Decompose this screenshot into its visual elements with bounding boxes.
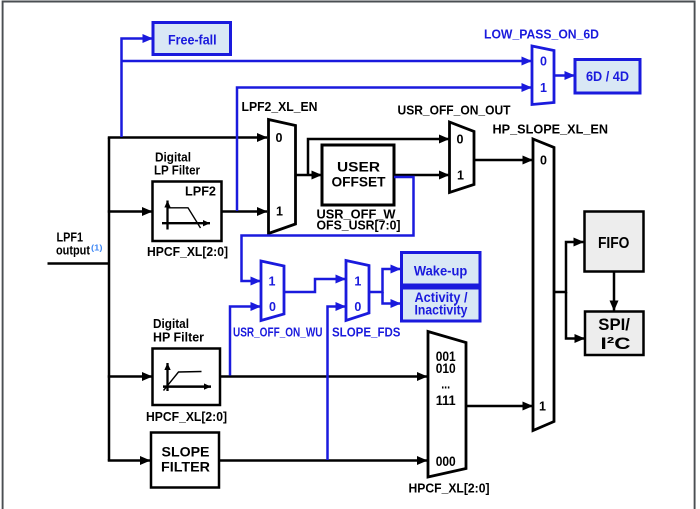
- svg-text:OFFSET: OFFSET: [332, 175, 387, 190]
- wire 6D mux output: [554, 74, 575, 77]
- wire SLOPE_FDS input 0 from slope output: [328, 307, 346, 461]
- label USR_OFF_W OFS_USR[7:0]: [317, 208, 401, 233]
- wire branch to USR_OFF_ON_OUT input 0: [308, 139, 449, 176]
- svg-text:010: 010: [436, 361, 456, 376]
- svg-text:1: 1: [354, 275, 361, 289]
- wire HP_SLOPE output split to FIFO and SPI: [554, 242, 585, 339]
- label USR_OFF_ON_OUT: [398, 104, 511, 118]
- wire HPCF mux output to HP_SLOPE mux input 1: [466, 405, 533, 408]
- label USR_OFF_ON_WU: [233, 325, 323, 339]
- mux SLOPE_FDS: [346, 261, 369, 321]
- svg-text:HP_SLOPE_XL_EN: HP_SLOPE_XL_EN: [493, 123, 609, 137]
- svg-text:1: 1: [457, 169, 464, 183]
- block U2 USER OFFSET: [322, 145, 394, 205]
- mux HP_SLOPE_XL_EN: [533, 139, 554, 431]
- svg-text:USR_OFF_ON_WU: USR_OFF_ON_WU: [233, 325, 323, 339]
- svg-text:HPCF_XL[2:0]: HPCF_XL[2:0]: [146, 410, 227, 424]
- block 6D/4D: [575, 60, 640, 94]
- svg-text:1: 1: [540, 81, 547, 95]
- wire WU output to SLOPE_FDS input 1: [284, 279, 346, 292]
- label HPCF_XL[2:0] for LPF2: [147, 245, 228, 259]
- wire USR_OFF_ON_OUT output to HP_SLOPE mux input 0: [474, 159, 533, 162]
- svg-text:Wake-up: Wake-up: [414, 262, 467, 278]
- wire FIFO to SPI: [613, 272, 616, 311]
- block U3 Digital HP Filter: [153, 349, 221, 406]
- svg-text:HPCF_XL[2:0]: HPCF_XL[2:0]: [409, 482, 490, 496]
- mux LOW_PASS_ON_6D: [532, 46, 554, 105]
- svg-text:1: 1: [539, 400, 546, 414]
- svg-text:LPF1: LPF1: [57, 231, 84, 245]
- wire LPF2 output to mux input 1: [222, 210, 268, 213]
- svg-text:HPCF_XL[2:0]: HPCF_XL[2:0]: [147, 245, 228, 259]
- wire 6D mux input 0: [122, 60, 532, 63]
- mux USR_OFF_ON_OUT: [450, 122, 475, 193]
- svg-text:LP Filter: LP Filter: [154, 163, 200, 177]
- block Activity/Inactivity: [402, 288, 481, 321]
- block FIFO: [585, 212, 644, 272]
- wire distribution bus: [108, 138, 111, 461]
- wire bus to slope filter input: [109, 459, 150, 460]
- label LPF2_XL_EN: [242, 100, 318, 114]
- wire free-fall feed: [122, 39, 153, 138]
- label HP_SLOPE_XL_EN: [493, 123, 609, 137]
- svg-text:Inactivity: Inactivity: [415, 302, 468, 318]
- svg-text:0: 0: [269, 300, 276, 314]
- wire bus to LPF2 input: [108, 210, 152, 213]
- svg-text:0: 0: [354, 300, 361, 314]
- wire slope filter output to HPCF mux: [219, 459, 427, 462]
- wire bus to LPF2_XL_EN input 0: [108, 136, 267, 139]
- svg-text:000: 000: [436, 454, 456, 469]
- svg-text:Free-fall: Free-fall: [168, 31, 217, 47]
- block Free-fall: [153, 23, 231, 55]
- mux LPF2_XL_EN: [269, 120, 296, 234]
- label HPCF_XL[2:0] for HP filter: [146, 410, 227, 424]
- svg-text:LOW_PASS_ON_6D: LOW_PASS_ON_6D: [484, 27, 599, 41]
- svg-text:Digital: Digital: [155, 150, 191, 164]
- svg-text:(1): (1): [91, 243, 103, 253]
- svg-text:0: 0: [457, 133, 464, 147]
- svg-text:Digital: Digital: [153, 317, 189, 331]
- label SLOPE_FDS: [332, 325, 401, 339]
- svg-text:HP Filter: HP Filter: [153, 330, 204, 344]
- mux HPCF_XL selector: [428, 332, 466, 478]
- block Wake-up: [402, 253, 481, 286]
- svg-text:LPF2_XL_EN: LPF2_XL_EN: [242, 100, 318, 114]
- svg-text:output: output: [56, 244, 91, 258]
- svg-text:SLOPE: SLOPE: [162, 443, 210, 459]
- wire USER OFFSET output to mux input 1: [394, 174, 449, 177]
- wire user offset tap to WU mux input 1: [242, 177, 414, 281]
- svg-text:SPI/: SPI/: [598, 315, 630, 334]
- wire LPF1 output entry: [48, 262, 111, 265]
- svg-text:0: 0: [540, 55, 547, 69]
- svg-text:USER: USER: [337, 160, 380, 175]
- label Digital LP Filter: [154, 150, 200, 177]
- svg-text:6D / 4D: 6D / 4D: [586, 68, 629, 84]
- svg-text:111: 111: [436, 393, 456, 408]
- svg-text:LPF2: LPF2: [185, 184, 216, 199]
- svg-text:...: ...: [441, 377, 450, 392]
- label HPCF_XL[2:0] for mux: [409, 482, 490, 496]
- block SPI/I2C: [585, 312, 644, 356]
- wire 6D mux input 1 from LPF2 output: [237, 88, 532, 212]
- svg-text:SLOPE_FDS: SLOPE_FDS: [332, 325, 401, 339]
- svg-text:OFS_USR[7:0]: OFS_USR[7:0]: [317, 219, 401, 233]
- svg-text:0: 0: [540, 154, 547, 168]
- block U1 Digital LP Filter LPF2: [153, 182, 222, 242]
- svg-text:0: 0: [276, 131, 283, 145]
- svg-text:FIFO: FIFO: [598, 235, 630, 252]
- wire WU mux input 0 from HP output: [230, 307, 261, 376]
- svg-text:1: 1: [269, 275, 276, 289]
- mux USR_OFF_ON_WU: [261, 261, 284, 321]
- label LOW_PASS_ON_6D: [484, 27, 599, 41]
- svg-text:USR_OFF_ON_OUT: USR_OFF_ON_OUT: [398, 104, 511, 118]
- svg-text:FILTER: FILTER: [161, 459, 210, 475]
- wire bus to HP filter input: [108, 375, 152, 378]
- block U4 SLOPE FILTER: [151, 433, 219, 488]
- wire LPF2_XL_EN output to USER OFFSET: [296, 174, 322, 177]
- label Digital HP Filter: [153, 317, 204, 345]
- svg-text:I²C: I²C: [601, 334, 631, 353]
- wire HP filter output to HPCF mux: [220, 375, 427, 378]
- svg-text:1: 1: [276, 205, 283, 219]
- label LPF1 output(1): [56, 231, 103, 258]
- wire SLOPE_FDS output split: [369, 269, 401, 304]
